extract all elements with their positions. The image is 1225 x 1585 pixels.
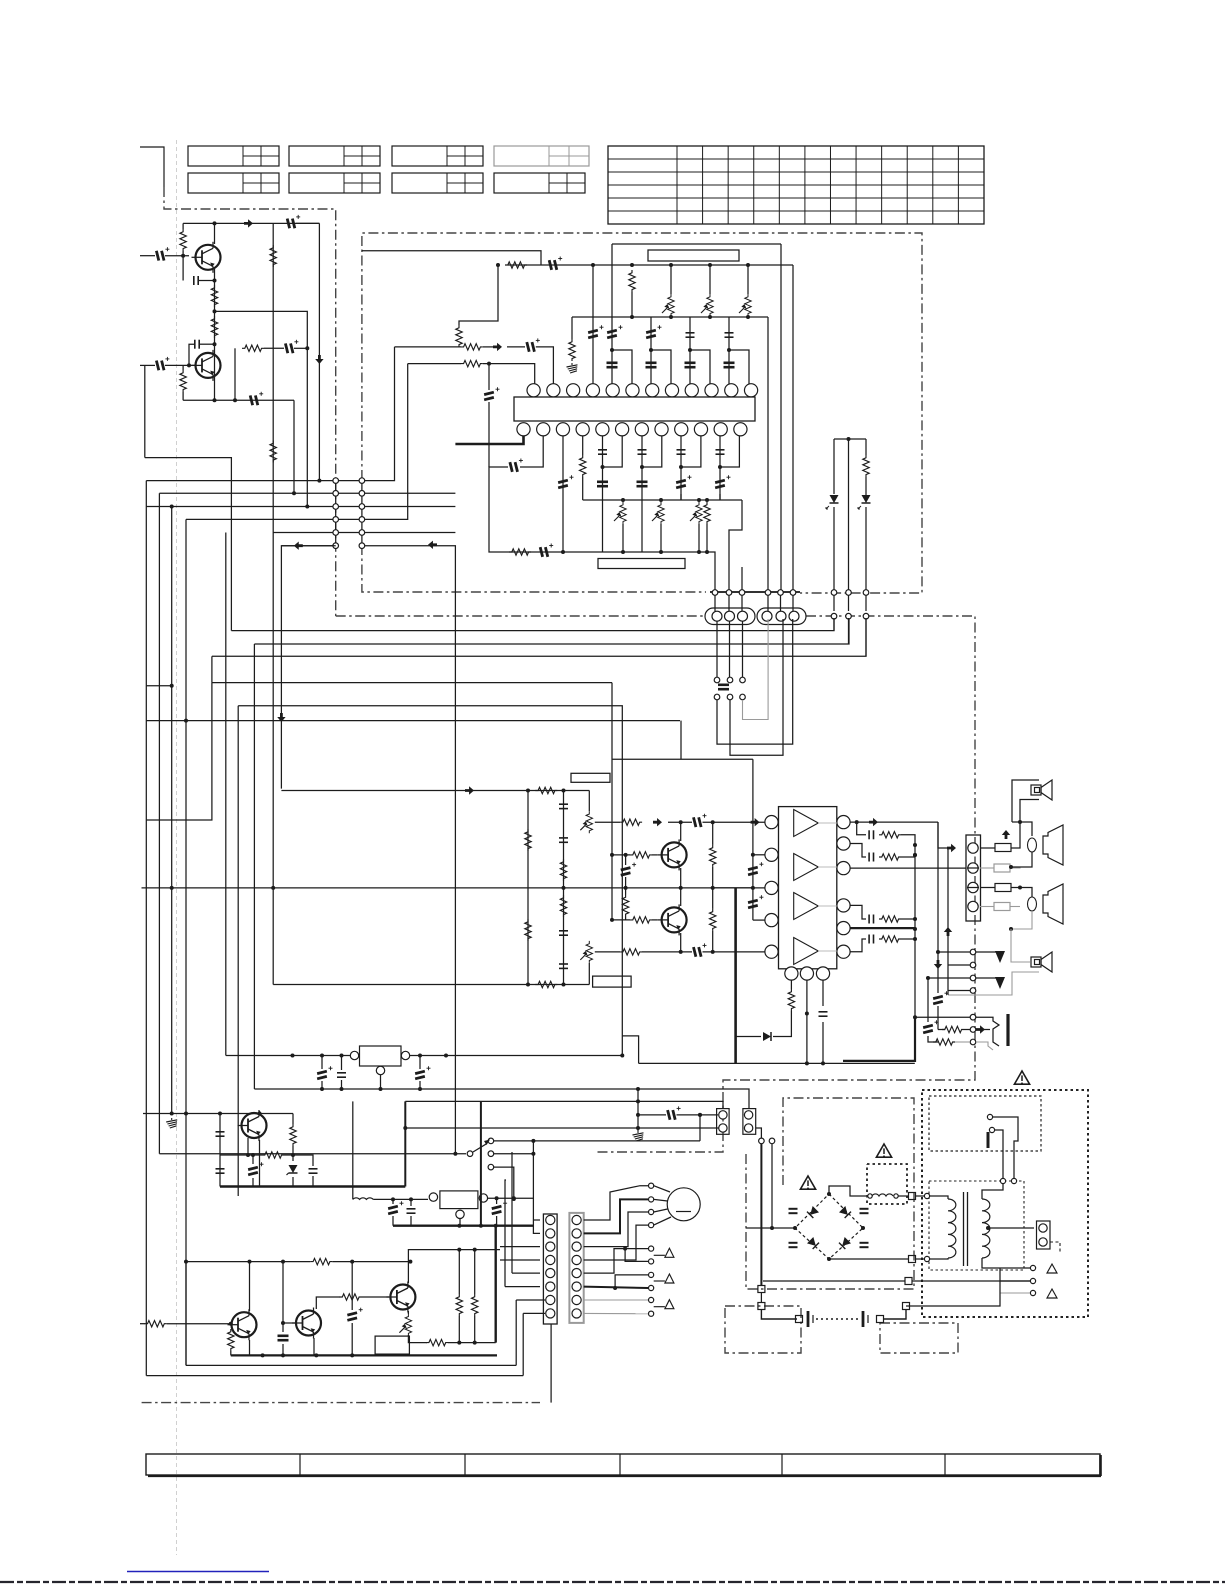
preamp bot path (595, 951, 620, 953)
left stub c (146, 683, 212, 820)
CN20 pin 3 (546, 1242, 555, 1251)
cn20 f7 (516, 1299, 545, 1301)
woofer2 wire (1020, 888, 1032, 898)
resistor R10 (505, 262, 527, 268)
node capnet 3 (718, 465, 722, 469)
node lowbus 699 (697, 550, 701, 554)
node sw riser (698, 1113, 702, 1117)
IC U1 top pin 1 (527, 384, 540, 397)
node q12 base (229, 1322, 233, 1326)
switch throw 1 (488, 1138, 494, 1144)
node r51 bot (291, 1153, 295, 1157)
wire trio c (865, 618, 867, 656)
resistor R28 (630, 852, 652, 858)
jack wire 3 (938, 1041, 939, 1043)
q6 collector (680, 888, 682, 906)
connector CN11 (743, 1109, 756, 1135)
node q14c a (457, 1248, 461, 1252)
q14 col ext (459, 1249, 500, 1251)
c80 leads (321, 1056, 323, 1070)
pre2 mid (642, 951, 692, 953)
node q13b (281, 1321, 285, 1325)
woofer1 wire (1020, 822, 1032, 836)
node midrail end (271, 886, 275, 890)
capacitor C52 (559, 931, 568, 935)
pa pin3 wire (713, 887, 766, 889)
diode D5 (763, 1032, 771, 1041)
node lbus 699 (697, 498, 701, 502)
signal arrow left row6 (428, 541, 437, 549)
capacitor C25 (718, 685, 729, 689)
CN20 pin 2 (546, 1229, 555, 1238)
wire pcap gap cover (296, 222, 319, 224)
reg1 gnd rail (254, 1089, 749, 1109)
IC U1 bottom pin 22 (694, 423, 707, 436)
resistor R51 (290, 1124, 296, 1146)
wire connector row 5 (273, 532, 336, 534)
terminal TB3 (1030, 1290, 1035, 1295)
q13 base wire (283, 1322, 297, 1324)
node feedback (305, 346, 309, 350)
mid vertical rail (272, 223, 274, 532)
wire E left corner (237, 706, 239, 1196)
cn21 w8 (584, 1312, 648, 1314)
node lbus 707 (705, 498, 709, 502)
bat wire 1 (761, 1310, 797, 1320)
out5 wire (850, 927, 915, 929)
vert 928 (927, 978, 929, 1022)
c98 bot (282, 1344, 284, 1355)
left rail 4 (185, 519, 187, 1365)
sw1 drop (532, 1141, 534, 1226)
node bus2 710 (708, 315, 712, 319)
capacitor C30 (598, 450, 607, 454)
r32 bot (712, 931, 714, 952)
label box IC1 top (648, 250, 739, 261)
signal arrow out1 (869, 818, 878, 826)
wire trim 0 top (670, 265, 672, 294)
wire capnet 3 b (720, 436, 739, 467)
resistor R31 (710, 845, 716, 867)
capacitor C84 (216, 1169, 225, 1173)
cn21 w7 (584, 1299, 648, 1301)
trimmer VR5 (652, 502, 664, 524)
cn12 out (1050, 1242, 1060, 1252)
wire join 715 (714, 595, 716, 611)
node bridge lx (793, 1226, 797, 1230)
wire in2 (395, 346, 462, 348)
resistor R50 (262, 1152, 284, 1158)
wire c21 (488, 364, 490, 390)
diode D21 (839, 1206, 851, 1218)
wire led2 mid (865, 477, 867, 495)
mid rail down (272, 533, 274, 985)
transistor Q12 (228, 1309, 257, 1340)
c80 leads2 (321, 1081, 323, 1089)
signal arrow in2 (493, 343, 502, 351)
motor terminal 1 (649, 1183, 654, 1188)
c85 leads2 (252, 1178, 254, 1187)
fb3 out (1011, 887, 1020, 889)
r29 bot (625, 917, 627, 920)
wire trim 1 bot (709, 316, 711, 317)
node pa3 (751, 886, 755, 890)
q12 base feed (140, 1323, 145, 1325)
q12 emit (249, 1340, 251, 1355)
d5 left (736, 1036, 761, 1038)
node q10 base (246, 1153, 250, 1157)
IC U1 top pin 5 (606, 384, 619, 397)
volume VR10 (580, 811, 592, 833)
wire B left corner (253, 643, 255, 645)
capacitor C99 (347, 1308, 363, 1322)
strip w1 (526, 1225, 540, 1227)
pre1 mid (668, 821, 692, 823)
node q10 l (170, 1112, 174, 1116)
connector CN1 pin R2 (359, 491, 365, 497)
CN21 pin 3 (572, 1242, 581, 1251)
reg1 out wire (410, 1055, 622, 1057)
speaker SP4 tweeter (1031, 952, 1052, 972)
signal arrow left (294, 542, 303, 550)
left rails to power (171, 888, 173, 1114)
node q5b (624, 853, 628, 857)
capacitor C11 (588, 325, 604, 339)
connector CN1 pin R6 (359, 543, 365, 549)
connector CN2 pin 742 (739, 590, 745, 596)
node q5 col (679, 820, 683, 824)
wire r17 down (706, 524, 708, 552)
wire right drop 3 (792, 265, 794, 591)
preamp feeder (611, 683, 613, 920)
junction square J4 (758, 1286, 765, 1293)
switch feed (159, 1153, 466, 1155)
out6 wire (850, 939, 866, 952)
r51 bot lead (292, 1146, 294, 1161)
node 1128b (403, 1126, 407, 1130)
bus wire E (238, 706, 622, 1056)
CN10 pin 2 (719, 1124, 727, 1132)
IC U1 bottom pin 15 (556, 423, 569, 436)
resistor R54 (228, 1329, 234, 1351)
IC U1 top pin 4 (586, 384, 599, 397)
cn20 f1 (533, 1219, 540, 1221)
resistor R42 (879, 916, 901, 922)
resistor R24 (525, 919, 531, 941)
bottom-left dash-dot rail 2 (550, 1330, 552, 1403)
node sw2 (531, 1152, 535, 1156)
whisker terminal 2 (665, 1274, 674, 1283)
node lowbus 707 (705, 550, 709, 554)
wire led2 bot (865, 507, 867, 591)
node lowbus 661 (659, 550, 663, 554)
wire Q1 emitter chain (214, 281, 216, 401)
warning triangle W1 (1014, 1071, 1029, 1084)
node pre1 (711, 820, 715, 824)
node lbus 623 (621, 498, 625, 502)
zobel1 (857, 822, 866, 835)
c99 leads (351, 1262, 353, 1310)
node rail4 stub (184, 719, 188, 723)
node z2 (913, 853, 917, 857)
connector CN2 pin 780.5 (778, 590, 784, 596)
vert 938b (937, 1006, 939, 1030)
xfmr sec bot (982, 1258, 1000, 1268)
aux terminal 5 (649, 1297, 654, 1302)
node C4 (213, 342, 217, 346)
IC U1 bottom pin 16 (576, 423, 589, 436)
wire pin13 exit (455, 436, 523, 444)
resistor R56 (426, 1339, 448, 1345)
c97 leads (496, 1198, 498, 1204)
cn5 feed4 (915, 906, 966, 908)
resistor R19 (863, 455, 869, 477)
rectifier block dash-dot border (746, 1098, 914, 1289)
connector CN2 pin 848.5 (846, 590, 852, 596)
node reg1 b2 (340, 1054, 344, 1058)
wire capnet 2 b (681, 436, 701, 467)
pa rail top (612, 758, 753, 760)
wire x145 riser (144, 365, 146, 457)
node c56 (624, 886, 628, 890)
ground G5 (633, 1131, 644, 1141)
wire row2 right (336, 492, 456, 494)
IC U1 top pin 2 (547, 384, 560, 397)
sec terminal 2 (1011, 1178, 1016, 1183)
tweeter1 frame (1012, 780, 1039, 822)
wire vr5 down (660, 524, 662, 552)
wire row1 right (336, 347, 395, 481)
parts table A3 (392, 146, 483, 166)
headphone jack J1 (976, 1014, 1008, 1050)
node sec ct (986, 1226, 990, 1230)
bl1 right up (515, 1300, 517, 1365)
IC U1 body (514, 397, 755, 421)
cn20 f5b (511, 1152, 513, 1273)
junction square J6 (796, 1316, 803, 1323)
cn20 f3 (500, 1247, 540, 1250)
node caprail top (218, 1112, 222, 1116)
tuner block border bottom-left (362, 545, 706, 592)
node spk1 (1018, 820, 1022, 824)
c95 leads2 (392, 1216, 394, 1226)
transistor Q14 (386, 1282, 415, 1313)
U2 left pin 2 (765, 848, 778, 861)
junction square J3 (909, 1256, 916, 1263)
capacitor C15 (725, 333, 734, 337)
capacitor C97 (491, 1201, 507, 1215)
wire r14 out (483, 346, 493, 348)
IC U1 top pin 3 (567, 384, 580, 397)
left rail 1 (145, 481, 147, 1376)
cn5 pin2 bar (967, 867, 979, 869)
tone bottom wire (273, 984, 589, 986)
wire in3 (408, 363, 461, 365)
node w2b (1009, 927, 1013, 931)
IC U1 bottom pin 23 (714, 423, 727, 436)
bottom-left dash-dot rail (142, 1402, 540, 1404)
cn5 feed1 (938, 822, 950, 848)
wire pin3 riser (592, 265, 594, 384)
connector CN10 (717, 1109, 730, 1135)
capacitor C66 (819, 1012, 828, 1016)
regulator IC3 (440, 1191, 478, 1209)
connector CN1 pin L6 (333, 543, 339, 549)
jack r46 (955, 1041, 970, 1043)
c56 bot (625, 877, 627, 888)
tp wires 1b (976, 952, 1000, 957)
jack wire 1 (915, 1016, 970, 1018)
capacitor C64 (869, 915, 873, 924)
node vcc 671 (669, 263, 673, 267)
terminal tri 1 (1047, 1264, 1057, 1273)
cn20 f6b (505, 1180, 506, 1287)
wire join 742 (741, 595, 743, 611)
wire C4 left to base (189, 344, 195, 365)
connector CN3 pin r866 (863, 613, 869, 619)
trimmer VR12 (399, 1314, 411, 1336)
tp wires 3 (928, 977, 970, 979)
op-amp triangle 4 (794, 938, 819, 965)
resistor R15 (461, 360, 483, 366)
motor lead 3 (654, 1209, 668, 1212)
wire pin4 riser (611, 244, 613, 384)
node jr 845 (913, 843, 917, 847)
wire join 834 (833, 595, 835, 611)
plug pin 1 (987, 1114, 992, 1119)
left rail 2 (158, 493, 160, 1153)
resistor R6 (270, 245, 276, 267)
node r56 b (473, 1341, 477, 1345)
wire node to row3 (215, 311, 308, 506)
bottom long 2 (146, 1375, 523, 1377)
IC U1 bottom pin 19 (635, 423, 648, 436)
xfmr lead b (930, 1258, 948, 1259)
CN5 pin 2 (968, 863, 978, 873)
lower bus2 (583, 499, 742, 501)
fb3 wires (980, 887, 995, 889)
capacitor C93 (860, 1243, 869, 1247)
u2 r44 down (773, 1011, 791, 1037)
bus2 alignment (572, 316, 768, 318)
splice drop 1 (760, 1144, 762, 1285)
capacitor C53 (559, 964, 568, 968)
wire join 866 (865, 595, 867, 611)
node gndrail 380.5 (379, 1087, 383, 1091)
transistor Q5 (658, 839, 687, 870)
IC U1 top pin 10 (705, 384, 718, 397)
connector CN1 pin R4 (359, 517, 365, 523)
terminal t1 (714, 677, 720, 683)
ind feed (352, 1101, 354, 1199)
motor lead 1 (654, 1186, 670, 1192)
terminal b1 (714, 694, 720, 700)
trimmer VR4 (614, 502, 626, 524)
node R2-R3 (213, 309, 217, 313)
node rail3 stub (170, 684, 174, 688)
switch out 3 (494, 1167, 514, 1199)
node 5v b (494, 1224, 498, 1228)
capacitor C3 (286, 215, 300, 229)
IC U1 top pin 6 (626, 384, 639, 397)
node jr 939 (913, 937, 917, 941)
wire right drop 1 (767, 317, 769, 591)
xfmr terminal 1 (924, 1193, 929, 1198)
gnd drop (637, 1089, 639, 1131)
r31-32 (712, 867, 714, 909)
IC U1 bottom pin 13 (517, 423, 530, 436)
node fan6 (613, 1286, 617, 1290)
plug wire c (988, 1148, 1000, 1181)
signal arrow 938 (934, 960, 942, 969)
aux terminal 1 (649, 1246, 654, 1251)
resistor R17 (704, 502, 710, 524)
trimmer VR6 (690, 502, 702, 524)
wire connector row 1 (146, 480, 335, 482)
bottom long 1 (186, 1364, 516, 1366)
label box amp1 (571, 773, 610, 782)
cn20 f5 (512, 1272, 540, 1274)
out3 wire (850, 867, 966, 869)
resistor R58 (472, 1294, 478, 1316)
rail 1128 (405, 1127, 719, 1129)
U2 right pin 9 (837, 899, 850, 912)
rail 1101 (405, 1101, 723, 1109)
q6 emitter (680, 933, 682, 952)
power amp IC U2 (779, 807, 837, 969)
signal arrow pre1 (653, 818, 662, 826)
q10 emit down (259, 1140, 261, 1187)
CN21 pin 7 (572, 1295, 581, 1304)
switch lever (473, 1140, 490, 1153)
IC U1 bottom pin 14 (537, 423, 550, 436)
xfmr core 2 (967, 1192, 969, 1266)
fb2 wires (980, 867, 994, 869)
cap mid (282, 1262, 284, 1332)
IC U1 bottom pin 17 (596, 423, 609, 436)
node rail3 row3 (170, 505, 174, 509)
connector CN2 pin 768 (765, 590, 771, 596)
node vcc left (496, 263, 500, 267)
ground G1 (567, 363, 578, 373)
node bridge rx (861, 1226, 865, 1230)
q5 emitter (680, 868, 682, 888)
battery box 2 dash-dot (880, 1323, 958, 1353)
node gndrail 420 (418, 1087, 422, 1091)
node bias b (350, 1260, 354, 1264)
IC U1 top pin 11 (725, 384, 738, 397)
node bus2 632 (630, 315, 634, 319)
node reg1 b (320, 1054, 324, 1058)
tweeter2 down (948, 972, 1039, 995)
left stub a (146, 685, 171, 687)
resistor R14 (461, 344, 483, 350)
wire Q2 input (140, 364, 155, 366)
transistor Q13 (292, 1308, 321, 1339)
battery B2 plates (862, 1311, 865, 1327)
resistor R41 (879, 854, 901, 860)
U-turn wire 3 (743, 619, 769, 720)
connector CN2 pin 834 (831, 590, 837, 596)
capacitor C41 (637, 482, 648, 486)
U2 left pin 1 (765, 816, 778, 829)
parts table B1 (188, 173, 279, 193)
wire R5-C6 (264, 347, 284, 349)
cn20 f8 (523, 1312, 545, 1314)
wire vr4 down (622, 524, 624, 552)
c81 leads (341, 1056, 343, 1071)
plug pin 2 (989, 1127, 994, 1132)
